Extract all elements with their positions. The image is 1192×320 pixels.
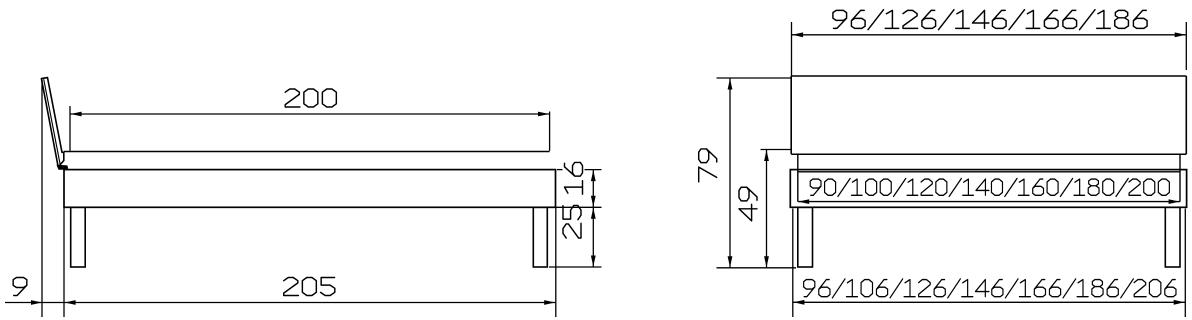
- front view right leg: [1165, 207, 1180, 267]
- dimension 96/106/126/146/166/186/206 (frame overall widths): [793, 209, 1186, 318]
- side view rear leg: [533, 207, 547, 267]
- dimension 200 (lying surface length): [70, 89, 550, 151]
- side view headboard board: [41, 78, 67, 170]
- side view front leg: [71, 207, 86, 267]
- dimension 79 (headboard height): [699, 78, 796, 268]
- dimension 49 (lying height): [739, 150, 792, 268]
- front view headboard: [791, 76, 1186, 154]
- front view left leg: [798, 207, 813, 267]
- dimension 9 (headboard overhang): [5, 80, 42, 317]
- front view frame rail outer: [790, 170, 1186, 208]
- dimension 16 (frame rail height): [549, 162, 602, 207]
- dimension 205 (frame overall length): [42, 207, 556, 317]
- side view mattress platform top line: [64, 151, 550, 153]
- front view frame rail inner lines with extension sides: [798, 154, 1180, 201]
- side view frame rail: [64, 170, 556, 208]
- front view mattress platform line: [791, 153, 1186, 155]
- dimension 96/126/146/166/186 (headboard widths): [792, 10, 1187, 76]
- dimension 25 (leg height): [549, 205, 602, 267]
- boxed dimension 90/100/120/140/160/180/200 (mattress widths): [798, 178, 1179, 204]
